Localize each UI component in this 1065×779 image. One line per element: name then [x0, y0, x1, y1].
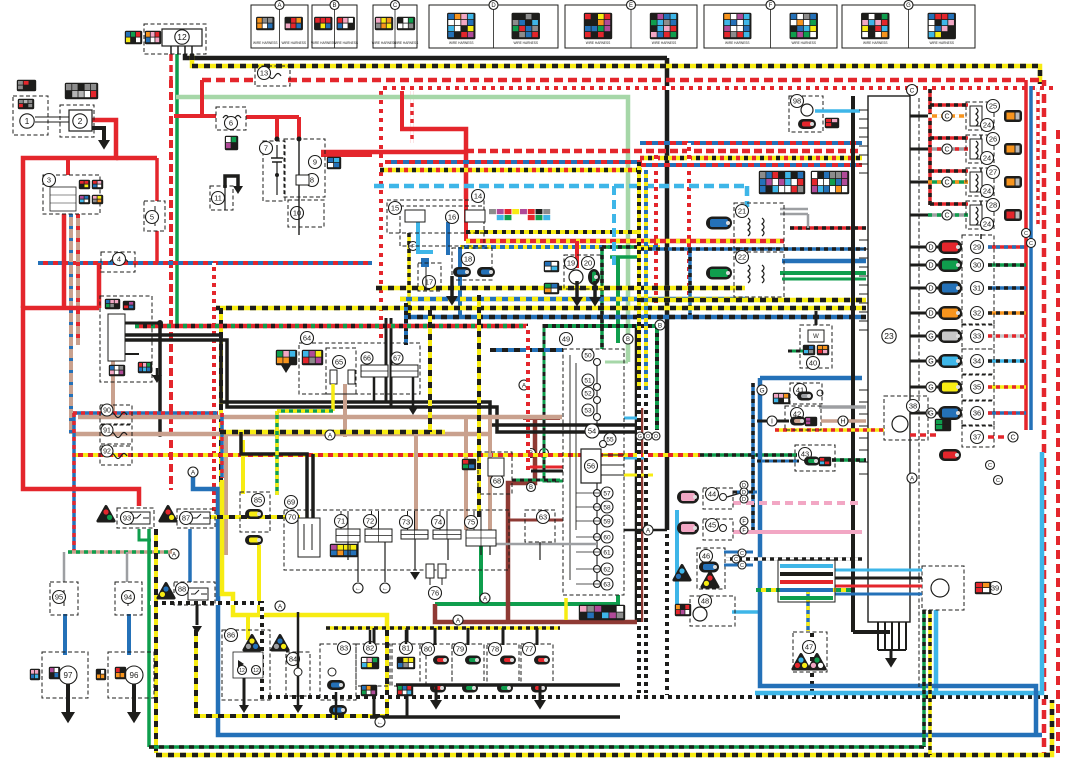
svg-text:32: 32 [973, 309, 981, 318]
svg-text:B: B [626, 337, 630, 343]
svg-text:C: C [944, 213, 949, 220]
svg-text:85: 85 [254, 496, 262, 505]
svg-text:39: 39 [991, 584, 999, 593]
svg-text:82: 82 [366, 644, 374, 653]
svg-text:C: C [944, 114, 949, 121]
svg-text:WIRE HARNESS: WIRE HARNESS [311, 41, 336, 45]
svg-text:12: 12 [239, 668, 245, 674]
svg-text:WIRE HARNESS: WIRE HARNESS [253, 41, 278, 45]
svg-text:63: 63 [603, 581, 611, 588]
svg-text:G: G [759, 387, 764, 394]
svg-text:35: 35 [973, 383, 981, 392]
svg-text:80: 80 [424, 645, 432, 654]
svg-text:93: 93 [123, 514, 131, 523]
svg-text:34: 34 [973, 357, 981, 366]
svg-text:F: F [769, 3, 773, 9]
svg-text:C: C [1024, 231, 1028, 237]
svg-text:57: 57 [603, 490, 611, 497]
svg-text:WIRE HARNESS: WIRE HARNESS [791, 41, 816, 45]
svg-text:24: 24 [983, 154, 991, 163]
svg-text:86: 86 [227, 631, 235, 640]
svg-text:A: A [191, 469, 196, 476]
svg-text:40: 40 [809, 359, 817, 368]
svg-text:D: D [491, 3, 496, 9]
svg-text:49: 49 [562, 335, 570, 344]
svg-text:27: 27 [989, 168, 997, 177]
svg-text:22: 22 [738, 253, 746, 262]
svg-text:15: 15 [391, 204, 399, 213]
svg-text:7: 7 [264, 144, 268, 153]
svg-text:G: G [928, 385, 933, 392]
svg-text:6: 6 [229, 119, 233, 128]
svg-text:53: 53 [584, 407, 592, 414]
svg-text:WIRE HARNESS: WIRE HARNESS [513, 41, 538, 45]
svg-text:73: 73 [402, 518, 410, 527]
svg-text:81: 81 [402, 644, 410, 653]
svg-text:A: A [910, 475, 915, 482]
svg-text:50: 50 [584, 352, 592, 359]
svg-text:C: C [734, 557, 738, 563]
svg-text:WIRE HARNESS: WIRE HARNESS [449, 41, 474, 45]
svg-text:95: 95 [55, 593, 63, 602]
svg-text:61: 61 [603, 549, 611, 556]
svg-text:88: 88 [178, 585, 186, 594]
svg-text:9: 9 [313, 158, 317, 167]
svg-text:2: 2 [78, 116, 83, 126]
svg-text:G: G [928, 334, 933, 341]
svg-text:72: 72 [366, 517, 374, 526]
svg-text:19: 19 [567, 259, 575, 268]
svg-text:23: 23 [884, 331, 894, 341]
svg-text:←: ← [377, 720, 383, 726]
svg-text:G: G [638, 434, 642, 440]
svg-text:C: C [393, 3, 398, 9]
svg-text:I: I [771, 419, 773, 426]
svg-text:C: C [988, 463, 992, 469]
svg-text:D: D [928, 245, 933, 252]
svg-text:D: D [928, 286, 933, 293]
svg-text:90: 90 [103, 408, 111, 415]
svg-text:WIRE HARNESS: WIRE HARNESS [394, 41, 419, 45]
svg-text:B: B [658, 322, 662, 329]
svg-text:24: 24 [983, 220, 991, 229]
svg-text:WIRE HARNESS: WIRE HARNESS [929, 41, 954, 45]
svg-text:O: O [646, 434, 650, 440]
svg-text:C: C [944, 180, 949, 187]
svg-text:G: G [928, 359, 933, 366]
svg-text:D: D [928, 263, 933, 270]
svg-text:WIRE HARNESS: WIRE HARNESS [863, 41, 888, 45]
svg-text:87: 87 [182, 514, 190, 523]
svg-text:79: 79 [456, 645, 464, 654]
svg-text:67: 67 [393, 356, 401, 363]
svg-text:58: 58 [603, 504, 611, 511]
svg-text:28: 28 [989, 201, 997, 210]
svg-text:A: A [172, 551, 177, 558]
svg-text:21: 21 [738, 207, 746, 216]
svg-text:45: 45 [708, 521, 716, 530]
svg-text:37: 37 [973, 433, 981, 442]
svg-text:←: ← [355, 586, 361, 592]
svg-text:WIRE HARNESS: WIRE HARNESS [333, 41, 358, 45]
svg-text:18: 18 [464, 255, 472, 264]
svg-text:78: 78 [491, 645, 499, 654]
svg-text:97: 97 [64, 671, 73, 680]
svg-text:29: 29 [973, 243, 981, 252]
svg-text:C: C [740, 551, 744, 557]
svg-text:76: 76 [431, 589, 439, 598]
svg-text:20: 20 [584, 259, 592, 268]
svg-text:12: 12 [177, 32, 187, 42]
svg-text:WIRE HARNESS: WIRE HARNESS [281, 41, 306, 45]
svg-text:26: 26 [989, 135, 997, 144]
svg-text:B: B [529, 485, 533, 491]
svg-text:A: A [646, 527, 651, 534]
svg-text:W: W [813, 334, 819, 340]
svg-text:24: 24 [983, 187, 991, 196]
svg-text:C: C [1010, 435, 1015, 442]
svg-text:36: 36 [973, 409, 981, 418]
svg-text:A: A [456, 617, 461, 624]
svg-text:24: 24 [983, 121, 991, 130]
svg-text:C: C [1029, 241, 1033, 247]
svg-text:56: 56 [587, 462, 595, 471]
svg-text:51: 51 [584, 377, 592, 384]
svg-text:11: 11 [214, 194, 222, 203]
svg-text:31: 31 [973, 284, 981, 293]
svg-text:12: 12 [253, 668, 259, 674]
svg-text:A: A [277, 3, 281, 9]
svg-text:59: 59 [603, 518, 611, 525]
svg-text:62: 62 [603, 566, 611, 573]
svg-text:13: 13 [260, 69, 268, 78]
svg-text:A: A [328, 432, 333, 439]
svg-text:98: 98 [793, 97, 801, 106]
svg-text:96: 96 [130, 671, 139, 680]
svg-text:69: 69 [287, 498, 295, 507]
svg-text:16: 16 [448, 213, 456, 222]
svg-text:A: A [483, 595, 488, 602]
svg-text:60: 60 [603, 534, 611, 541]
svg-text:94: 94 [124, 593, 132, 602]
svg-text:14: 14 [474, 192, 482, 201]
svg-text:G: G [906, 3, 911, 9]
svg-text:75: 75 [467, 518, 475, 527]
svg-text:46: 46 [702, 552, 710, 561]
svg-text:3: 3 [47, 176, 51, 185]
svg-text:E: E [629, 3, 633, 9]
svg-text:83: 83 [340, 644, 348, 653]
svg-text:30: 30 [973, 261, 981, 270]
svg-text:63: 63 [539, 513, 547, 522]
svg-text:38: 38 [909, 402, 917, 411]
svg-text:C: C [944, 147, 949, 154]
svg-text:8: 8 [310, 176, 314, 185]
svg-text:44: 44 [708, 490, 716, 499]
svg-text:66: 66 [363, 356, 371, 363]
svg-text:55: 55 [606, 436, 614, 443]
svg-text:A: A [278, 603, 283, 610]
svg-text:10: 10 [293, 209, 301, 218]
svg-text:B: B [332, 3, 336, 9]
svg-text:H: H [840, 419, 845, 426]
svg-text:71: 71 [337, 517, 345, 526]
svg-text:64: 64 [303, 334, 311, 343]
svg-text:D: D [742, 497, 746, 503]
svg-text:25: 25 [989, 102, 997, 111]
svg-text:48: 48 [701, 597, 709, 606]
svg-text:D: D [928, 311, 933, 318]
svg-text:65: 65 [335, 358, 343, 367]
svg-text:92: 92 [103, 449, 111, 456]
svg-text:52: 52 [584, 390, 592, 397]
svg-text:4: 4 [117, 255, 121, 264]
svg-text:91: 91 [103, 428, 111, 435]
svg-text:C: C [910, 87, 915, 94]
svg-text:33: 33 [973, 332, 981, 341]
svg-text:WIRE HARNESS: WIRE HARNESS [725, 41, 750, 45]
svg-text:5: 5 [150, 213, 154, 222]
svg-text:1: 1 [25, 116, 30, 126]
svg-text:←: ← [382, 586, 388, 592]
svg-text:WIRE HARNESS: WIRE HARNESS [652, 41, 677, 45]
svg-text:WIRE HARNESS: WIRE HARNESS [586, 41, 611, 45]
svg-text:68: 68 [493, 477, 501, 486]
svg-text:70: 70 [288, 513, 296, 522]
svg-text:77: 77 [525, 645, 533, 654]
svg-text:84: 84 [289, 655, 297, 664]
svg-text:O: O [654, 434, 658, 440]
svg-text:G: G [928, 411, 933, 418]
svg-text:C: C [740, 563, 744, 569]
svg-text:WIRE HARNESS: WIRE HARNESS [372, 41, 397, 45]
svg-text:C: C [996, 478, 1000, 484]
svg-text:47: 47 [805, 643, 813, 652]
svg-text:54: 54 [588, 427, 596, 436]
svg-text:74: 74 [434, 518, 442, 527]
